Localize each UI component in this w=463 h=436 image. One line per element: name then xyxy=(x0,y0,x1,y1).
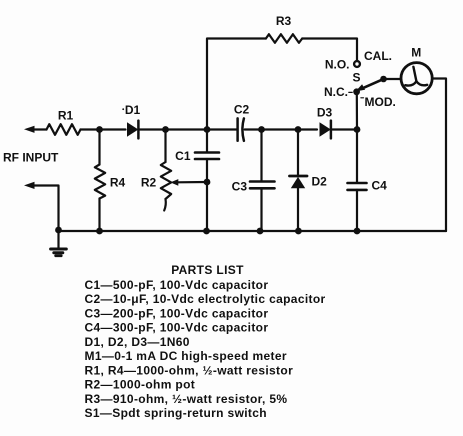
svg-text:C4—300-pF, 100-Vdc capacitor: C4—300-pF, 100-Vdc capacitor xyxy=(85,321,269,335)
diode D2 xyxy=(290,130,308,232)
D1 leader tick xyxy=(122,108,124,110)
capacitor C1 xyxy=(195,130,219,232)
resistor R3 xyxy=(266,34,302,43)
wire C2 to D3 xyxy=(245,128,317,130)
wire R3 to N.O. contact xyxy=(302,39,357,61)
svg-text:M1—0-1 mA DC high-speed meter: M1—0-1 mA DC high-speed meter xyxy=(85,349,287,363)
svg-text:S1—Spdt spring-return switch: S1—Spdt spring-return switch xyxy=(85,406,267,420)
svg-text:D2: D2 xyxy=(312,174,328,188)
diode D3 xyxy=(320,121,331,139)
R2 wiper arrow xyxy=(170,179,207,186)
diode D1 xyxy=(127,121,138,139)
junction node D2 bottom xyxy=(295,228,302,235)
svg-text:C2: C2 xyxy=(234,103,250,117)
svg-text:R2: R2 xyxy=(141,175,157,189)
junction node C4 top xyxy=(354,126,361,133)
svg-text:D1: D1 xyxy=(125,103,141,117)
N.C. leader dash xyxy=(349,91,352,93)
svg-text:C4: C4 xyxy=(372,179,388,193)
svg-text:D3: D3 xyxy=(317,106,333,120)
junction node ground corner xyxy=(55,227,62,234)
wire R3 branch left vertical xyxy=(207,39,266,130)
junction node C1 top xyxy=(204,126,211,133)
capacitor C3 xyxy=(250,130,275,232)
svg-text:C3—200-pF, 100-Vdc capacitor: C3—200-pF, 100-Vdc capacitor xyxy=(85,306,269,320)
junction node C1 bottom xyxy=(203,228,210,235)
svg-text:R2—1000-ohm pot: R2—1000-ohm pot xyxy=(85,378,196,392)
junction node C3 bottom xyxy=(257,228,264,235)
junction node R2 top xyxy=(162,126,169,133)
junction node C3 top xyxy=(258,126,265,133)
switch S blade xyxy=(356,79,384,91)
wire N.C. to rail xyxy=(356,92,358,130)
RF input upper arrow xyxy=(24,126,47,133)
MOD. leader dash xyxy=(361,97,364,99)
svg-text:RF INPUT: RF INPUT xyxy=(3,151,59,165)
junction node D2 top xyxy=(295,126,302,133)
svg-text:C1: C1 xyxy=(175,149,191,163)
wire R1 to D1 xyxy=(81,128,126,130)
ground xyxy=(51,231,67,256)
svg-text:CAL.: CAL. xyxy=(364,49,392,63)
svg-text:R4: R4 xyxy=(110,175,126,189)
svg-text:N.C.: N.C. xyxy=(324,85,348,99)
bottom rail wire xyxy=(59,230,447,232)
switch S N.C. contact xyxy=(353,88,360,95)
RF input lower arrow xyxy=(24,182,59,231)
svg-text:N.O.: N.O. xyxy=(325,57,350,71)
svg-text:C3: C3 xyxy=(232,179,248,193)
wire pivot to meter xyxy=(384,78,402,80)
junction node C4 bottom xyxy=(354,228,361,235)
svg-text:MOD.: MOD. xyxy=(365,95,396,109)
resistor R1 xyxy=(47,124,81,135)
svg-text:R1: R1 xyxy=(58,109,74,123)
svg-text:S: S xyxy=(352,70,360,84)
svg-text:C2—10-μF, 10-Vdc electrolytic: C2—10-μF, 10-Vdc electrolytic capacitor xyxy=(85,292,326,306)
svg-text:R3: R3 xyxy=(276,14,292,28)
switch pivot junction xyxy=(380,76,387,83)
wire D1 to C2 xyxy=(139,128,237,130)
resistor R4 xyxy=(95,130,105,232)
junction node R4 bottom xyxy=(96,228,103,235)
wire D3 to switch node xyxy=(331,128,358,130)
svg-text:C1—500-pF, 100-Vdc capacitor: C1—500-pF, 100-Vdc capacitor xyxy=(85,278,269,292)
meter M1 xyxy=(401,63,432,94)
junction node wiper to C1 line xyxy=(204,179,211,186)
wire meter to right vertical xyxy=(432,79,446,232)
svg-text:R1, R4—1000-ohm, ½-watt resist: R1, R4—1000-ohm, ½-watt resistor xyxy=(85,363,294,377)
capacitor C2 xyxy=(238,118,244,140)
junction node after R1 xyxy=(96,126,103,133)
svg-text:PARTS LIST: PARTS LIST xyxy=(171,263,244,277)
potentiometer R2 xyxy=(161,130,171,211)
svg-text:M: M xyxy=(411,46,421,60)
svg-text:R3—910-ohm, ½-watt resistor, 5: R3—910-ohm, ½-watt resistor, 5% xyxy=(85,392,288,406)
capacitor C4 xyxy=(348,130,367,232)
svg-text:D1, D2, D3—1N60: D1, D2, D3—1N60 xyxy=(85,335,190,349)
switch S N.O. contact xyxy=(354,61,360,67)
